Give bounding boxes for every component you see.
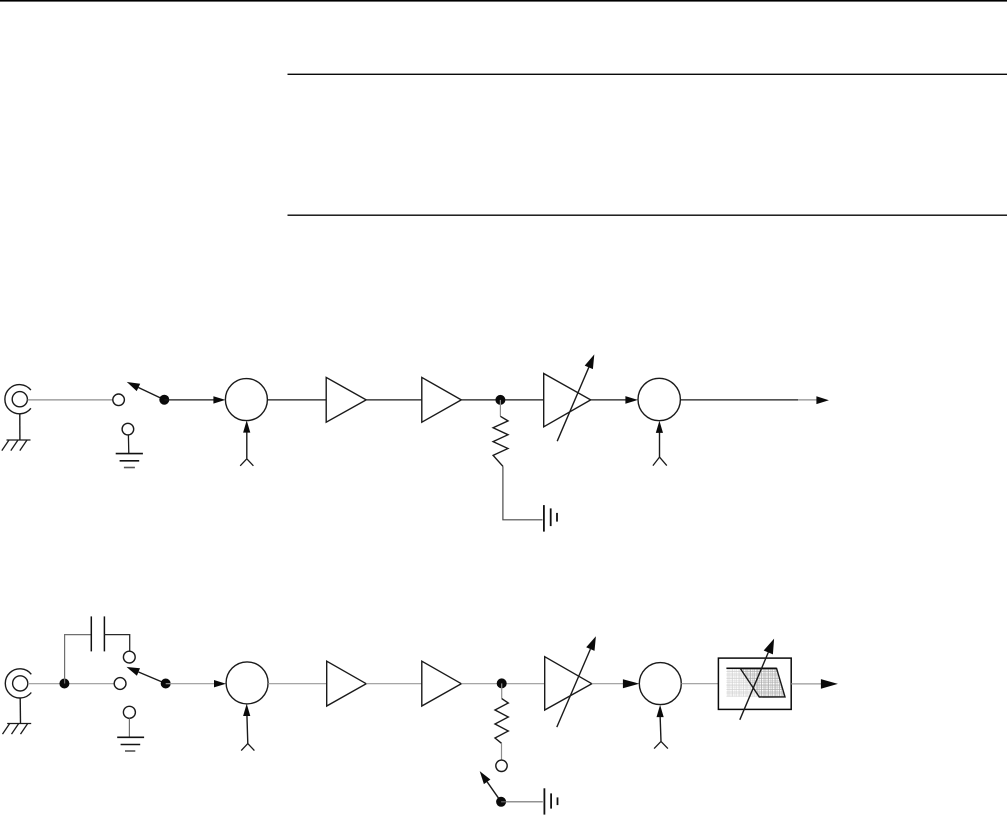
- wire amplifier 1 to amplifier 2 (diagram 1): [366, 399, 422, 401]
- amplifier 2 (diagram 1): [422, 377, 462, 422]
- wire variable amplifier to mixer 2 with arrowhead (diagram 2): [592, 679, 640, 688]
- earth ground bars at resistor (diagram 1): [544, 505, 557, 531]
- wire mixer 1 to amplifier 1 (diagram 1): [267, 399, 326, 401]
- switch through contact (diagram 1): [113, 394, 125, 406]
- ground switch contact (diagram 2): [123, 706, 135, 718]
- wire BNC to switch contact (diagram 1): [28, 399, 113, 401]
- earth ground bars at resistor switch (diagram 2): [544, 788, 557, 814]
- wire amplifier 1 to amplifier 2 (diagram 2): [366, 683, 422, 685]
- mixer circle 1 (diagram 2): [226, 662, 268, 704]
- resistor switch arm with arrowhead (diagram 2): [480, 771, 501, 802]
- wire resistor to switch contact (diagram 2): [501, 743, 503, 760]
- earth ground (diagram 2): [117, 737, 144, 751]
- wire BNC to coupling junction (diagram 2): [28, 683, 114, 685]
- BNC input connector J2 (diagram 2): [5, 669, 31, 698]
- horizontal rule lower: [288, 215, 1007, 216]
- horizontal rule upper: [288, 74, 1007, 75]
- wire amplifier 2 to variable attenuator (diagram 2): [461, 683, 544, 685]
- switch arm with arrowhead (diagram 1): [127, 382, 165, 400]
- chassis ground (diagram 1): [2, 414, 31, 451]
- coupling capacitor (diagram 2): [91, 616, 104, 651]
- switch arm with arrowhead (diagram 2): [127, 667, 166, 684]
- wire junction to resistor (diagram 2): [501, 683, 503, 698]
- wire mixer 1 to amplifier 1 (diagram 2): [268, 683, 327, 685]
- wire resistor to ground (diagram 1): [503, 466, 543, 520]
- wire pivot to mixer 1 with arrowhead (diagram 2): [166, 680, 226, 687]
- shunt resistor (diagram 1): [493, 416, 508, 466]
- wire contact to earth ground (diagram 2): [128, 718, 130, 737]
- wire variable amplifier to mixer 2 with arrowhead (diagram 1): [591, 396, 638, 404]
- DC switch contact (diagram 2): [114, 678, 126, 690]
- chassis ground (diagram 2): [3, 698, 32, 734]
- output wire with arrowhead (diagram 2): [791, 679, 838, 689]
- AC switch contact (diagram 2): [123, 651, 135, 663]
- resistor switch pivot dot (diagram 2): [496, 797, 506, 807]
- variability arrow through amplifier (diagram 1): [557, 354, 594, 441]
- mixer circle 2 (diagram 2): [639, 663, 681, 705]
- wire mixer 2 to variable filter (diagram 2): [681, 683, 718, 685]
- output wire with arrowhead (diagram 1): [680, 396, 829, 404]
- control arrow into mixer 2 (diagram 1): [653, 421, 667, 466]
- BNC input connector J1 (diagram 1): [5, 385, 31, 414]
- amplifier 1 (diagram 1): [326, 377, 366, 422]
- junction dot at shunt resistor (diagram 1): [495, 395, 505, 405]
- shunt resistor (diagram 2): [495, 699, 508, 744]
- resistor switch contact (diagram 2): [496, 760, 507, 771]
- switch pivot junction dot (diagram 2): [161, 679, 171, 689]
- earth ground (diagram 1): [116, 454, 143, 468]
- switch ground contact (diagram 1): [122, 423, 134, 435]
- junction dot at shunt resistor (diagram 2): [497, 678, 507, 688]
- amplifier 1 (diagram 2): [327, 661, 367, 706]
- variability arrow through filter (diagram 2): [740, 639, 774, 720]
- variable gain amplifier (diagram 1): [544, 374, 591, 427]
- variable gain amplifier (diagram 2): [545, 657, 592, 710]
- control arrow into mixer 2 (diagram 2): [654, 705, 668, 749]
- amplifier 2 (diagram 2): [422, 661, 462, 706]
- mixer circle 2 (diagram 1): [638, 378, 680, 420]
- control arrow into mixer 1 (diagram 1): [240, 420, 253, 465]
- wire contact to earth ground (diagram 1): [127, 435, 129, 454]
- variability arrow through amplifier (diagram 2): [557, 636, 596, 727]
- mixer circle 1 (diagram 1): [225, 379, 267, 421]
- switch pivot junction dot (diagram 1): [159, 395, 169, 405]
- wire capacitor to AC contact (diagram 2): [104, 635, 129, 652]
- control arrow into mixer 1 (diagram 2): [241, 704, 254, 751]
- wire pivot to ground bars (diagram 2): [501, 801, 543, 803]
- wire amplifier 2 to variable attenuator (diagram 1): [461, 399, 543, 401]
- wire junction up to capacitor (diagram 2): [65, 635, 92, 684]
- wire pivot to mixer 1 with arrowhead (diagram 1): [164, 396, 225, 403]
- page top bar: [0, 0, 1007, 2]
- variable bandwidth filter box (diagram 2): [718, 658, 791, 709]
- wire junction to resistor (diagram 1): [499, 400, 501, 416]
- coupling junction dot (diagram 2): [59, 679, 69, 689]
